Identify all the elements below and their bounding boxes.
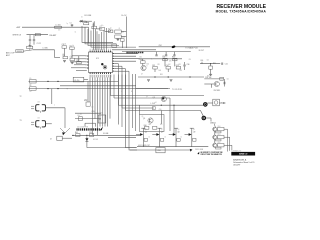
label D5 [93, 139, 98, 141]
footer line 3 [233, 164, 240, 166]
label FM ANT [50, 34, 58, 37]
svg-text:103: 103 [58, 30, 60, 32]
svg-text:4u7: 4u7 [30, 84, 32, 86]
svg-text:45M: 45M [101, 112, 104, 114]
svg-text:C3 22: C3 22 [37, 43, 41, 45]
svg-text:L5: L5 [30, 78, 32, 80]
resistor R1 [84, 21, 89, 25]
wire bottom rail [137, 146, 208, 148]
capacitor C13 [70, 57, 75, 61]
inductor L1 [55, 25, 62, 29]
resistor R20 [140, 59, 146, 63]
svg-text:R30: R30 [213, 63, 216, 65]
wire box feeds [140, 98, 175, 135]
capacitor C33 [162, 57, 167, 61]
svg-text:Q7: Q7 [161, 131, 163, 133]
svg-text:473: 473 [169, 60, 172, 62]
svg-text:AIWA CO: AIWA CO [239, 153, 248, 156]
IC1 bottom pins [90, 72, 111, 74]
wire jack2 down [210, 118, 212, 122]
wire right cells spine [214, 124, 215, 143]
svg-text:Q7: Q7 [161, 129, 163, 131]
connector CN2 pin row [127, 51, 144, 53]
svg-text:Q3: Q3 [146, 96, 148, 98]
ground regulator [116, 39, 119, 41]
svg-text:R20: R20 [140, 59, 143, 61]
svg-text:R21: R21 [158, 64, 161, 66]
svg-text:47u: 47u [101, 25, 103, 27]
svg-text:R51: R51 [218, 134, 221, 136]
wire bus IC right fan [114, 54, 140, 71]
black bar label [231, 152, 255, 156]
diode D1 [79, 20, 83, 23]
svg-text:CN2: CN2 [159, 45, 162, 47]
jack J2 blob [203, 102, 208, 107]
connector CN3 box [156, 148, 165, 153]
transistor Q3 [153, 96, 167, 101]
svg-text:01/02/97: 01/02/97 [233, 164, 240, 166]
svg-text:Q5: Q5 [143, 118, 145, 120]
svg-text:FM ANT: FM ANT [50, 34, 58, 37]
svg-text:C9: C9 [119, 28, 121, 30]
label bottom net [103, 133, 108, 135]
svg-text:Q5: Q5 [142, 116, 144, 118]
wire bracket above strip [85, 123, 96, 126]
transistor Q10 cell [213, 126, 224, 133]
schematic sheet background [0, 0, 270, 174]
label above bar [231, 149, 242, 152]
svg-text:C9: C9 [122, 32, 124, 34]
label rail end [67, 88, 69, 90]
svg-text:R22: R22 [172, 57, 175, 59]
svg-text:B OUT: B OUT [199, 50, 204, 52]
capacitor C2 [29, 35, 31, 45]
resistor R45 [75, 132, 80, 136]
svg-text:R31: R31 [207, 75, 210, 77]
svg-text:B: B [131, 91, 132, 93]
label R30 [213, 63, 216, 65]
wire antenna drop [88, 27, 90, 43]
svg-text:C2: C2 [75, 32, 77, 34]
capacitor C14 [76, 60, 81, 64]
wire rail upper [29, 80, 119, 82]
capacitor C15 [121, 39, 125, 48]
svg-text:C40: C40 [207, 60, 210, 62]
svg-text:C1: C1 [70, 23, 72, 25]
capacitor C34 [166, 65, 171, 69]
svg-text:L1 100: L1 100 [56, 25, 61, 27]
capacitor C3 [33, 35, 41, 46]
label AM LOOP ANT [6, 52, 15, 57]
wire IC top left links [94, 23, 98, 51]
resistor R10 [84, 81, 90, 106]
pen mark right [190, 149, 193, 152]
wire right lower loop [204, 78, 223, 80]
transistor Q2 [214, 81, 219, 86]
svg-text:B: B [147, 65, 148, 67]
bar antenna T1 [16, 50, 23, 53]
ground right [209, 74, 212, 76]
transistor Q1 [141, 65, 146, 70]
svg-text:R50: R50 [218, 126, 221, 128]
amplifier box [140, 115, 165, 132]
note small text top [195, 149, 203, 151]
capacitor C12 [69, 45, 74, 49]
cluster value labels [141, 60, 182, 76]
label L3 [43, 47, 48, 49]
svg-text:C50: C50 [89, 132, 92, 134]
svg-text:R52: R52 [218, 142, 221, 144]
title RECEIVER MODULE [216, 4, 266, 10]
svg-text:Q9: Q9 [193, 129, 195, 131]
IC1 left pins [87, 56, 89, 69]
capacitor C7 [100, 26, 105, 30]
resistor R32 [220, 77, 224, 80]
label lower loop [205, 77, 212, 79]
capacitor C31 [165, 52, 167, 56]
resistor R21 [152, 65, 157, 69]
misc value labels [30, 17, 230, 139]
svg-text:455: 455 [38, 118, 40, 120]
resistor R40 [144, 125, 149, 129]
IC1 right pins [113, 53, 115, 71]
resistor R23 [176, 65, 181, 69]
svg-text:R41: R41 [160, 124, 163, 126]
svg-text:10K: 10K [159, 70, 162, 72]
IC1 side pin numbers [86, 53, 116, 71]
wire transformer links [46, 108, 71, 133]
wire feed 49.8 [112, 44, 156, 50]
antenna ANT1 label [17, 26, 22, 29]
svg-text:223: 223 [180, 70, 183, 72]
svg-text:C41: C41 [225, 64, 228, 66]
wire IC left leads [70, 56, 87, 71]
ground antenna [29, 45, 32, 47]
op-amp IC1 body [89, 52, 113, 73]
footer line 1 [233, 158, 247, 161]
label TO MAIN PCB [185, 47, 198, 50]
wire B+ rail [121, 17, 126, 49]
resistor R41 [153, 126, 157, 129]
transistor Q9 [185, 128, 197, 147]
regulator cluster [115, 30, 125, 38]
svg-text:1 2 3 4 5 6 7 8 9: 1 2 3 4 5 6 7 8 9 [77, 126, 88, 128]
transistor Q6 [136, 128, 148, 147]
svg-text:LO: LO [155, 102, 157, 104]
transistor Q8 [169, 128, 181, 147]
svg-text:R45: R45 [75, 132, 78, 134]
svg-text:C34: C34 [168, 64, 171, 66]
svg-text:C: C [54, 104, 55, 106]
wire antenna feed [22, 26, 89, 28]
wire bottom long [72, 135, 141, 136]
capacitor C4 [27, 44, 33, 50]
wire right top link [200, 63, 220, 64]
svg-text:Q6: Q6 [145, 129, 147, 131]
svg-text:C36: C36 [189, 59, 192, 61]
note pen symbol [197, 152, 199, 155]
wire cluster verticals [143, 59, 175, 72]
svg-text:X2: X2 [99, 119, 101, 121]
svg-text:L3 330: L3 330 [43, 47, 48, 49]
diode D5 [85, 136, 88, 146]
label B+ [122, 15, 128, 17]
crystal X2 box [98, 115, 106, 123]
connector CN1 labels [77, 126, 88, 128]
svg-text:104: 104 [147, 64, 150, 66]
capacitor C40 [200, 60, 203, 64]
wire rail drop [51, 89, 53, 104]
connector CN1 strip [77, 128, 100, 130]
svg-text:R40: R40 [144, 125, 147, 127]
wire bus right descend [119, 64, 138, 150]
svg-text:X1: X1 [80, 114, 82, 116]
inductor L5 [30, 78, 37, 83]
wire left drops [63, 48, 79, 64]
wire bottom rail 2 [130, 149, 190, 151]
wire second feed [122, 51, 191, 53]
IC1 bottom pin labels [90, 75, 112, 78]
svg-text:C33: C33 [162, 56, 165, 58]
transformer T3 [20, 120, 46, 129]
svg-text:R24: R24 [160, 74, 163, 76]
label second feed [199, 50, 204, 52]
note text [200, 152, 222, 156]
resistor R30 [209, 64, 213, 74]
wire staircase bottom right [0, 0, 1, 1]
svg-text:C40: C40 [200, 60, 203, 62]
inductor L6 [30, 85, 37, 90]
IC1 logo mark [101, 63, 107, 69]
label B1 LINE [85, 15, 92, 17]
wire bus IC top risers [99, 28, 107, 50]
svg-text:D5 148: D5 148 [93, 139, 98, 141]
svg-text:C20: C20 [91, 107, 94, 109]
svg-text:Q8: Q8 [178, 129, 180, 131]
inductor L2 [35, 34, 40, 36]
relay RY1 [208, 99, 226, 106]
svg-text:Q9: Q9 [193, 131, 195, 133]
svg-text:B LINE: B LINE [103, 133, 108, 135]
wire rail mid [60, 85, 136, 87]
svg-text:IC1: IC1 [96, 58, 99, 60]
svg-text:R40: R40 [149, 124, 152, 126]
label speaker line [151, 103, 156, 105]
wire q2 links [204, 79, 225, 88]
svg-text:TO CD PCB: TO CD PCB [172, 89, 183, 91]
connector small left [50, 136, 62, 140]
transistor Q5 [143, 118, 153, 123]
label WHITE LN [13, 35, 22, 37]
svg-text:C: C [121, 91, 122, 93]
svg-text:C36: C36 [187, 64, 190, 66]
wire to section [136, 88, 170, 90]
svg-text:2SC1815: 2SC1815 [214, 90, 221, 92]
svg-text:CN3: CN3 [157, 150, 160, 152]
capacitor C32 [173, 52, 175, 56]
svg-text:4.7: 4.7 [141, 74, 143, 76]
svg-text:R23: R23 [179, 64, 182, 66]
wire cluster rail [138, 76, 204, 77]
svg-text:455: 455 [38, 102, 40, 104]
subtitle MODEL [216, 9, 267, 13]
svg-text:R21: R21 [152, 65, 155, 67]
wire FM ant lead [27, 34, 49, 36]
label above rail [138, 145, 150, 147]
svg-text:R31 10K: R31 10K [205, 77, 212, 79]
capacitor C11 [62, 44, 67, 48]
svg-text:IN ORDER TO CONTINUE THE: IN ORDER TO CONTINUE THE [200, 152, 222, 154]
resistor R22 [172, 57, 177, 61]
wire bus upper staircase left [82, 26, 136, 47]
svg-text:4u7: 4u7 [30, 91, 32, 93]
wire speaker line 1 [136, 105, 203, 106]
IC1 label [96, 58, 99, 60]
capacitor C36 [183, 62, 189, 70]
transformer T2 [20, 96, 46, 113]
svg-text:C20: C20 [92, 111, 95, 113]
wire bus mid verticals [133, 74, 136, 131]
wire loop out [33, 50, 60, 58]
svg-text:Q3: Q3 [153, 97, 155, 99]
svg-text:Q8: Q8 [177, 131, 179, 133]
pen mark left [62, 132, 65, 135]
capacitor C30 [155, 52, 157, 56]
label q2 [214, 90, 221, 92]
wire speaker line 2 [136, 107, 155, 110]
wire right cells bends [224, 129, 232, 151]
svg-text:R10: R10 [85, 100, 88, 102]
svg-text:TO MAIN PCB: TO MAIN PCB [185, 47, 198, 50]
svg-text:WHITE LN: WHITE LN [13, 35, 22, 37]
label small over wire [159, 45, 162, 47]
svg-text:R20: R20 [140, 57, 143, 59]
wire b1 links [79, 21, 110, 31]
wire rail lower [29, 88, 169, 90]
transistor Q12 cell [213, 142, 224, 149]
ground cluster [147, 80, 173, 82]
transistor Q7 [152, 128, 163, 147]
svg-text:Q6: Q6 [145, 131, 147, 133]
svg-text:MODEL TX5405AA/CR5405AA: MODEL TX5405AA/CR5405AA [216, 9, 267, 13]
wire lower left net [75, 115, 101, 121]
wire b line 2 [108, 136, 136, 138]
wire bus IC bottom [90, 77, 110, 135]
svg-text:C13: C13 [71, 56, 74, 58]
resistor R4 [63, 55, 68, 59]
pen mark J1 [171, 45, 175, 48]
connector CN1 arrow [100, 127, 104, 131]
svg-text:C42: C42 [227, 78, 230, 80]
capacitor C50 [89, 132, 94, 136]
svg-text:C11: C11 [64, 44, 67, 46]
svg-text:4.5V B GND OUT: 4.5V B GND OUT [138, 145, 150, 147]
svg-text:B1 LINE: B1 LINE [85, 15, 92, 17]
wire speaker line 3 [157, 109, 204, 124]
wire left jack link [62, 137, 72, 139]
footer line 2 [233, 161, 254, 164]
resistor R2 [108, 28, 113, 32]
IC1 top pin numbers [90, 48, 111, 51]
label to arrow [172, 89, 183, 91]
crystal X3 box [73, 77, 88, 82]
transistor Q11 cell [213, 134, 224, 141]
svg-text:T2: T2 [20, 96, 22, 98]
capacitor C20 [75, 111, 101, 113]
capacitor C6 [92, 25, 97, 29]
svg-text:T3: T3 [20, 120, 22, 122]
wire bus corners to speaker lines [111, 75, 205, 111]
jack J3 blob [202, 116, 207, 121]
capacitor C41 [222, 63, 228, 66]
wire bottom step [87, 146, 136, 148]
wire loop link [23, 50, 33, 51]
IC1 top pins [90, 51, 111, 53]
wire to main pcb [139, 46, 210, 48]
label 2SB [210, 122, 216, 124]
svg-text:R4: R4 [63, 54, 65, 56]
svg-text:C60: C60 [159, 109, 162, 111]
wire cluster top [138, 58, 182, 60]
capacitor C1 [70, 23, 74, 28]
wire staircase mid to right [0, 0, 1, 1]
wire jack2 link [206, 117, 211, 119]
junction dots rails [47, 81, 58, 89]
svg-text:CN1 B LINE: CN1 B LINE [195, 149, 203, 151]
svg-text:D1: D1 [81, 17, 83, 19]
